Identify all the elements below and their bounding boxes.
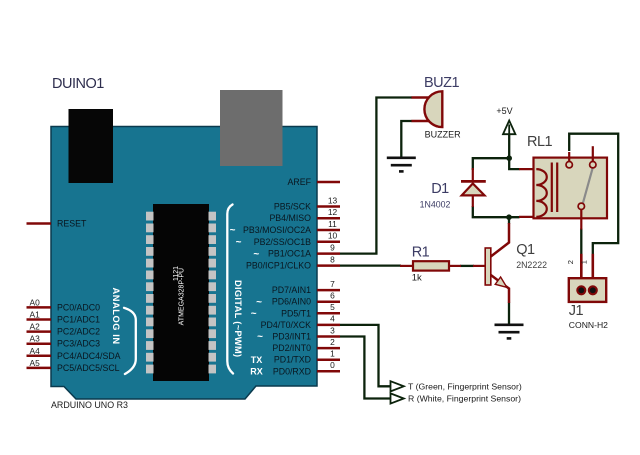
svg-text:PC0/ADC0: PC0/ADC0 xyxy=(57,302,100,312)
svg-text:~: ~ xyxy=(251,309,257,320)
wire D1 anode to node B to relay coil bottom xyxy=(473,206,520,217)
pin A4 (PC4/ADC4/SDA) wire stub and labels xyxy=(27,346,121,361)
svg-text:2N2222: 2N2222 xyxy=(516,260,547,270)
resistor R1 body xyxy=(413,261,449,270)
svg-text:A0: A0 xyxy=(30,297,41,307)
svg-text:T (Green, Fingerprint Sensor): T (Green, Fingerprint Sensor) xyxy=(408,382,522,392)
power +5V symbol xyxy=(496,106,515,134)
IC ATMEGA328 chip body xyxy=(153,204,209,381)
wire node A to D1 cathode xyxy=(473,158,509,170)
svg-text:A2: A2 xyxy=(30,322,41,332)
svg-text:11: 11 xyxy=(328,219,337,229)
svg-text:1: 1 xyxy=(330,349,335,359)
ground under Q1 emitter xyxy=(495,325,524,339)
svg-text:J1: J1 xyxy=(569,303,584,319)
power jack gray block xyxy=(220,90,283,166)
svg-text:RL1: RL1 xyxy=(527,134,553,150)
transistor Q1 emitter arrowhead xyxy=(495,277,507,287)
svg-text:ARDUINO UNO R3: ARDUINO UNO R3 xyxy=(51,400,128,410)
svg-text:~: ~ xyxy=(230,225,236,236)
svg-text:R1: R1 xyxy=(412,245,430,261)
silkscreen pwm tilde marks xyxy=(230,225,264,343)
svg-text:7: 7 xyxy=(330,279,335,289)
svg-text:PC3/ADC3: PC3/ADC3 xyxy=(57,339,100,349)
pin 2 (PD2/INT0) wire stub, number and label xyxy=(272,337,340,353)
svg-text:1k: 1k xyxy=(412,273,422,284)
svg-text:PB5/SCK: PB5/SCK xyxy=(274,202,311,212)
wire Q1 emitter to ground xyxy=(508,303,510,324)
svg-text:PC2/ADC2: PC2/ADC2 xyxy=(57,327,100,337)
silkscreen digital bracket xyxy=(227,205,233,374)
relay RL1 core lines xyxy=(552,163,557,213)
buzzer BUZ1 pin stubs xyxy=(412,98,435,122)
pin A3 (PC3/ADC3) wire stub and labels xyxy=(27,334,101,349)
relay RL1 body xyxy=(534,158,608,219)
svg-text:PB4/MISO: PB4/MISO xyxy=(269,213,311,223)
svg-text:1N4002: 1N4002 xyxy=(420,200,451,210)
svg-text:~: ~ xyxy=(253,249,259,260)
svg-text:ANALOG IN: ANALOG IN xyxy=(111,288,121,345)
wire relay NO contact to J1 pin1 xyxy=(569,134,618,255)
pin RESET wire stub xyxy=(27,222,52,225)
ground under buzzer xyxy=(387,158,416,172)
relay RL1 contact circles xyxy=(566,162,596,210)
wire pin4 to T arrow xyxy=(340,325,390,386)
svg-text:PC1/ADC1: PC1/ADC1 xyxy=(57,315,100,325)
connector J1 pin circles xyxy=(577,286,597,294)
chip pins left column xyxy=(146,212,154,374)
svg-text:PD7/AIN1: PD7/AIN1 xyxy=(272,285,311,295)
pin A5 (PC5/ADC5/SCL) wire stub and labels xyxy=(27,358,120,373)
pin 13 (PB5/SCK) wire stub, number and label xyxy=(274,195,340,211)
wire pin3 to R arrow xyxy=(340,337,390,399)
svg-text:+5V: +5V xyxy=(496,106,512,116)
svg-text:PB2/SS/OC1B: PB2/SS/OC1B xyxy=(254,237,311,247)
svg-text:4: 4 xyxy=(330,314,335,324)
svg-text:6: 6 xyxy=(330,291,335,301)
svg-text:PD5/T1: PD5/T1 xyxy=(281,308,311,318)
transistor Q1 collector lead xyxy=(491,223,509,257)
svg-text:PD4/T0/XCK: PD4/T0/XCK xyxy=(261,320,311,330)
wire buzzer bottom to ground xyxy=(401,121,412,157)
svg-text:~: ~ xyxy=(257,332,263,343)
pin A2 (PC2/ADC2) wire stub and labels xyxy=(27,322,101,337)
svg-text:CONN-H2: CONN-H2 xyxy=(569,320,608,330)
svg-text:0: 0 xyxy=(330,360,335,370)
wire pin8 to R1 xyxy=(340,264,401,266)
wire node B down to Q1 collector xyxy=(508,217,510,224)
relay RL1 coil xyxy=(536,169,547,217)
transistor Q1 base lead xyxy=(473,265,485,267)
connector J1 body xyxy=(569,278,606,302)
svg-text:Q1: Q1 xyxy=(516,242,535,258)
pin 0 (PD0/RXD) wire stub, number and label xyxy=(273,360,340,376)
relay RL1 common pin xyxy=(580,210,582,230)
wire +5V down through node A to relay coil top xyxy=(509,135,519,170)
pin 8 (PB0/ICP1/CLKO) wire stub, number and label xyxy=(246,254,340,270)
pin A1 (PC1/ADC1) wire stub and labels xyxy=(27,310,101,325)
pin 3 (PD3/INT1) wire stub, number and label xyxy=(272,325,340,341)
relay RL1 coil pin stubs xyxy=(519,169,536,217)
T output arrow xyxy=(391,381,404,391)
svg-text:DUINO1: DUINO1 xyxy=(52,76,104,92)
transistor Q1 emitter lead xyxy=(491,275,509,303)
relay RL1 NC pin stub xyxy=(592,146,594,161)
pin 10 (PB2/SS/OC1B) wire stub, number and label xyxy=(254,231,340,247)
svg-text:PD0/RXD: PD0/RXD xyxy=(273,366,311,376)
pin A0 (PC0/ADC0) wire stub and labels xyxy=(27,297,101,312)
diode D1 pin stubs xyxy=(472,168,474,207)
diode D1 triangle xyxy=(462,184,485,196)
svg-text:3: 3 xyxy=(330,325,335,335)
relay RL1 switch lever xyxy=(583,168,593,204)
svg-text:RX: RX xyxy=(250,367,263,377)
svg-text:PB3/MOSI/OC2A: PB3/MOSI/OC2A xyxy=(243,225,311,235)
svg-text:9: 9 xyxy=(330,242,335,252)
svg-text:PD1/TXD: PD1/TXD xyxy=(274,355,311,365)
wire relay common to J1 pin2 xyxy=(580,229,582,255)
svg-text:DIGITAL (~PWM): DIGITAL (~PWM) xyxy=(233,280,243,357)
svg-text:PB0/ICP1/CLKO: PB0/ICP1/CLKO xyxy=(246,261,311,271)
svg-text:R (White, Fingerprint Sensor): R (White, Fingerprint Sensor) xyxy=(408,394,521,404)
svg-text:A1: A1 xyxy=(30,310,41,320)
R output arrow xyxy=(391,393,404,403)
svg-text:2: 2 xyxy=(566,260,575,264)
svg-text:A4: A4 xyxy=(30,346,41,356)
svg-text:PC4/ADC4/SDA: PC4/ADC4/SDA xyxy=(57,351,121,361)
svg-text:PC5/ADC5/SCL: PC5/ADC5/SCL xyxy=(57,363,120,373)
svg-text:2: 2 xyxy=(330,337,335,347)
svg-text:1: 1 xyxy=(580,260,589,264)
pin 6 (PD6/AIN0) wire stub, number and label xyxy=(272,291,340,307)
resistor R1 leads xyxy=(400,265,461,267)
wire pin9 to buzzer xyxy=(340,98,412,254)
svg-text:PD6/AIN0: PD6/AIN0 xyxy=(272,297,311,307)
pin 7 (PD7/AIN1) wire stub, number and label xyxy=(272,279,340,295)
wire R1 to Q1 base xyxy=(460,265,474,267)
svg-text:TX: TX xyxy=(251,355,263,365)
junction node B xyxy=(506,214,512,220)
svg-text:AREF: AREF xyxy=(288,177,312,187)
pin 5 (PD5/T1) wire stub, number and label xyxy=(281,302,340,318)
relay RL1 NO pin xyxy=(568,152,570,162)
svg-text:BUZ1: BUZ1 xyxy=(424,75,460,91)
svg-text:~: ~ xyxy=(256,297,262,308)
pin 1 (PD1/TXD) wire stub, number and label xyxy=(274,349,340,365)
svg-text:10: 10 xyxy=(328,231,338,241)
svg-text:A3: A3 xyxy=(30,334,41,344)
junction node A xyxy=(506,155,512,161)
pin 9 (PB1/OC1A) wire stub, number and label xyxy=(268,242,340,258)
svg-text:~: ~ xyxy=(236,237,242,248)
buzzer BUZ1 body xyxy=(424,91,442,127)
chip pins right column xyxy=(209,212,217,374)
usb connector block xyxy=(69,109,114,183)
silkscreen analog bracket xyxy=(124,308,136,374)
svg-text:RESET: RESET xyxy=(57,219,87,229)
svg-text:PD3/INT1: PD3/INT1 xyxy=(272,332,311,342)
pin 11 (PB3/MOSI/OC2A) wire stub, number and label xyxy=(243,219,340,235)
connector J1 pin stubs xyxy=(581,254,593,288)
pin 4 (PD4/T0/XCK) wire stub, number and label xyxy=(261,314,340,330)
svg-text:PB1/OC1A: PB1/OC1A xyxy=(268,249,311,259)
svg-text:A5: A5 xyxy=(30,358,41,368)
svg-text:ATMEGA328P-PU: ATMEGA328P-PU xyxy=(179,268,186,325)
svg-text:12: 12 xyxy=(328,207,338,217)
arduino board DUINO1 body xyxy=(51,127,317,400)
svg-text:8: 8 xyxy=(330,254,335,264)
svg-text:5: 5 xyxy=(330,302,335,312)
diode D1 cathode bar xyxy=(461,180,486,183)
svg-text:13: 13 xyxy=(328,195,338,205)
svg-text:D1: D1 xyxy=(431,181,449,197)
pin 12 (PB4/MISO) wire stub, number and label xyxy=(269,207,340,223)
pin AREF wire stub xyxy=(317,181,340,184)
transistor Q1 base bar xyxy=(485,248,491,285)
svg-text:PD2/INT0: PD2/INT0 xyxy=(272,343,311,353)
svg-text:BUZZER: BUZZER xyxy=(425,130,462,140)
